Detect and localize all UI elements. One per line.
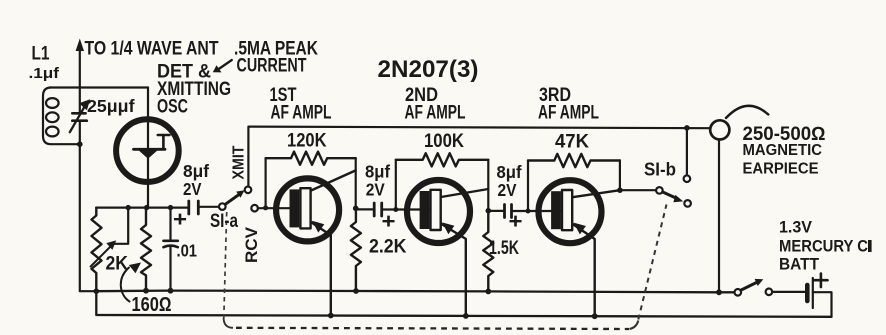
- dashed link bottom run: [236, 328, 629, 329]
- svg-text:BATT: BATT: [779, 256, 819, 274]
- node stage2 base tee: [393, 207, 398, 212]
- svg-text:.1μf: .1μf: [29, 65, 61, 82]
- node bus junction osc emitter: [144, 205, 149, 210]
- svg-text:SI-b: SI-b: [644, 160, 676, 180]
- transistor Q3 base plates: [420, 191, 430, 229]
- capacitor C3 8uf: [488, 210, 504, 212]
- svg-text:MAGNETIC: MAGNETIC: [743, 142, 823, 159]
- wire stage1 right riser: [355, 158, 357, 208]
- resistor 47K: [528, 154, 620, 167]
- svg-text:2.2K: 2.2K: [369, 237, 407, 258]
- svg-text:2V: 2V: [183, 179, 202, 199]
- potentiometer 160 body: [141, 208, 151, 291]
- antenna lead wire: [79, 50, 81, 88]
- resistor 100K: [396, 153, 489, 166]
- rail positive rail2: [96, 291, 831, 317]
- switch S2 lever: [741, 282, 757, 290]
- earpiece coil circle: [710, 120, 729, 139]
- switch S1-b left contact: [656, 187, 663, 194]
- node top rail junction: [684, 125, 690, 131]
- wire switch to battery: [772, 291, 805, 293]
- transistor Q4 base plates: [551, 191, 561, 229]
- svg-text:100K: 100K: [424, 131, 464, 152]
- dashed link bottom corner: [224, 318, 233, 328]
- svg-text:.01: .01: [177, 241, 198, 261]
- transistor Q3 collector lead: [441, 189, 488, 197]
- svg-text:2V: 2V: [366, 180, 385, 200]
- node collector Q2 junction: [353, 206, 359, 212]
- svg-text:EARPIECE: EARPIECE: [743, 161, 819, 178]
- capacitor 25uuf trimmer arrow: [70, 105, 86, 133]
- svg-text:+: +: [173, 208, 187, 231]
- transistor Q2 emitter arrowhead: [312, 221, 324, 233]
- svg-text:AF AMPL: AF AMPL: [271, 103, 332, 124]
- svg-text:8μf: 8μf: [365, 162, 390, 182]
- transistor Q4 3rd AF circle: [539, 180, 602, 243]
- svg-text:8μf: 8μf: [497, 162, 522, 182]
- svg-text:25μμf: 25μμf: [87, 96, 135, 116]
- resistor 1.5K: [483, 211, 493, 292]
- wire S1-b riser: [686, 128, 688, 175]
- wire stage2 left riser: [395, 160, 397, 210]
- antenna arrowhead: [76, 39, 84, 52]
- wire stage3 output to S1-b: [620, 189, 656, 191]
- wire stage1 left riser: [265, 158, 267, 208]
- wire stage2 right riser: [487, 160, 489, 211]
- potentiometer 2K body: [92, 208, 102, 292]
- svg-text:AF AMPL: AF AMPL: [405, 103, 466, 124]
- transistor Q3 emitter lead: [441, 224, 466, 316]
- svg-text:OSC: OSC: [157, 97, 188, 118]
- node collector Q3 junction: [486, 208, 492, 214]
- wire stage3 left riser: [527, 161, 529, 212]
- dashed link right hook: [630, 321, 639, 330]
- svg-text:1.5K: 1.5K: [489, 238, 519, 259]
- node bus junction .01: [168, 205, 173, 210]
- node stage3 output junction: [617, 187, 623, 193]
- resistor 2.2K: [351, 208, 361, 291]
- node stage1 base tee: [263, 205, 268, 210]
- transistor Q2 base plates: [290, 189, 300, 227]
- potentiometer 160 curved wiper arrow: [121, 268, 130, 302]
- battery plus sign: [814, 274, 827, 288]
- node coil bottom junction: [77, 141, 83, 147]
- annotation arrow .5MA: [218, 60, 232, 70]
- svg-text:AF AMPL: AF AMPL: [538, 103, 599, 124]
- svg-text:CURRENT: CURRENT: [237, 56, 307, 77]
- wire RCV to Q2 base: [258, 207, 290, 209]
- wire top horizontal coil to oscillator: [50, 86, 148, 88]
- capacitor C1 8uf plates: [187, 201, 190, 214]
- wire base bus y207: [96, 207, 188, 209]
- svg-text:120K: 120K: [287, 131, 327, 152]
- switch S1-a lever: [225, 195, 239, 205]
- coil L1: [43, 88, 80, 145]
- dashed ganged-switch link S1-a drop: [224, 212, 227, 318]
- transistor Q2 collector lead: [311, 170, 356, 190]
- battery BT1 plates: [805, 285, 810, 301]
- resistor 120K: [266, 152, 356, 165]
- transistor Q1 collector tick: [158, 135, 170, 149]
- capacitor .01: [169, 208, 171, 241]
- transistor Q1 emitter arrow: [137, 149, 159, 159]
- switch S1-b lower contact: [684, 200, 691, 207]
- wire 2K wiper to bus: [113, 208, 128, 244]
- switch S2 battery left contact: [735, 289, 742, 296]
- wire top rail to earpiece: [249, 127, 709, 129]
- capacitor C2 8uf: [356, 208, 374, 210]
- svg-text:160Ω: 160Ω: [132, 294, 172, 316]
- switch S1-a RCV contact: [251, 205, 258, 212]
- svg-text:TO 1/4 WAVE ANT: TO 1/4 WAVE ANT: [85, 39, 219, 60]
- wire oscillator drop: [147, 88, 149, 208]
- capacitor 25uuf plates: [72, 112, 85, 115]
- switch S1-b lever: [663, 192, 678, 199]
- wire battery to rail2: [813, 292, 832, 317]
- svg-text:47K: 47K: [555, 132, 589, 153]
- svg-text:MERCURY C: MERCURY C: [779, 238, 868, 256]
- transistor Q1 base bar: [134, 148, 166, 151]
- switch S1-a pivot contact: [219, 203, 226, 210]
- svg-text:+: +: [509, 210, 523, 233]
- svg-text:+: +: [382, 210, 396, 233]
- svg-text:SI-a: SI-a: [210, 211, 238, 232]
- wire earpiece drop: [718, 140, 720, 293]
- node stage3 base tee: [526, 209, 531, 214]
- node rail1 junctions: [94, 288, 100, 294]
- svg-text:XMIT: XMIT: [231, 145, 248, 179]
- wire antenna line upper: [79, 88, 81, 114]
- earpiece cord arc: [726, 106, 768, 118]
- svg-text:RCV: RCV: [243, 227, 261, 263]
- transistor Q3 2nd AF circle: [407, 180, 470, 243]
- transistor Q3 emitter arrowhead: [442, 222, 454, 234]
- transistor Q4 collector lead: [573, 190, 620, 197]
- svg-text:2V: 2V: [498, 180, 517, 200]
- svg-text:8μf: 8μf: [183, 161, 209, 181]
- wire antenna line lower: [79, 121, 81, 145]
- svg-text:1.3V: 1.3V: [779, 219, 812, 237]
- svg-text:L1: L1: [32, 44, 50, 65]
- switch S1-a XMIT contact: [245, 187, 252, 194]
- rail negative rail1: [96, 291, 734, 293]
- node bus junction 2K wiper: [126, 205, 131, 210]
- node rail2 junctions: [328, 313, 334, 319]
- transistor Q4 emitter lead: [573, 224, 595, 316]
- dashed link diagonal to S1-b: [638, 205, 666, 320]
- switch S1-b upper contact: [684, 175, 691, 182]
- wire XMIT riser: [247, 127, 250, 187]
- potentiometer 2K arrow: [91, 247, 110, 267]
- svg-text:2K: 2K: [106, 254, 129, 275]
- svg-text:2N207(3): 2N207(3): [378, 56, 479, 83]
- transistor Q1 det/xmit osc circle: [116, 119, 179, 182]
- transistor Q2 emitter lead: [311, 222, 331, 315]
- wire left down to rail: [80, 144, 97, 291]
- wire stage3 right riser: [619, 161, 621, 191]
- transistor Q2 1st AF circle: [276, 178, 339, 241]
- switch S2 right contact: [766, 289, 773, 296]
- transistor Q4 emitter arrowhead: [574, 223, 586, 235]
